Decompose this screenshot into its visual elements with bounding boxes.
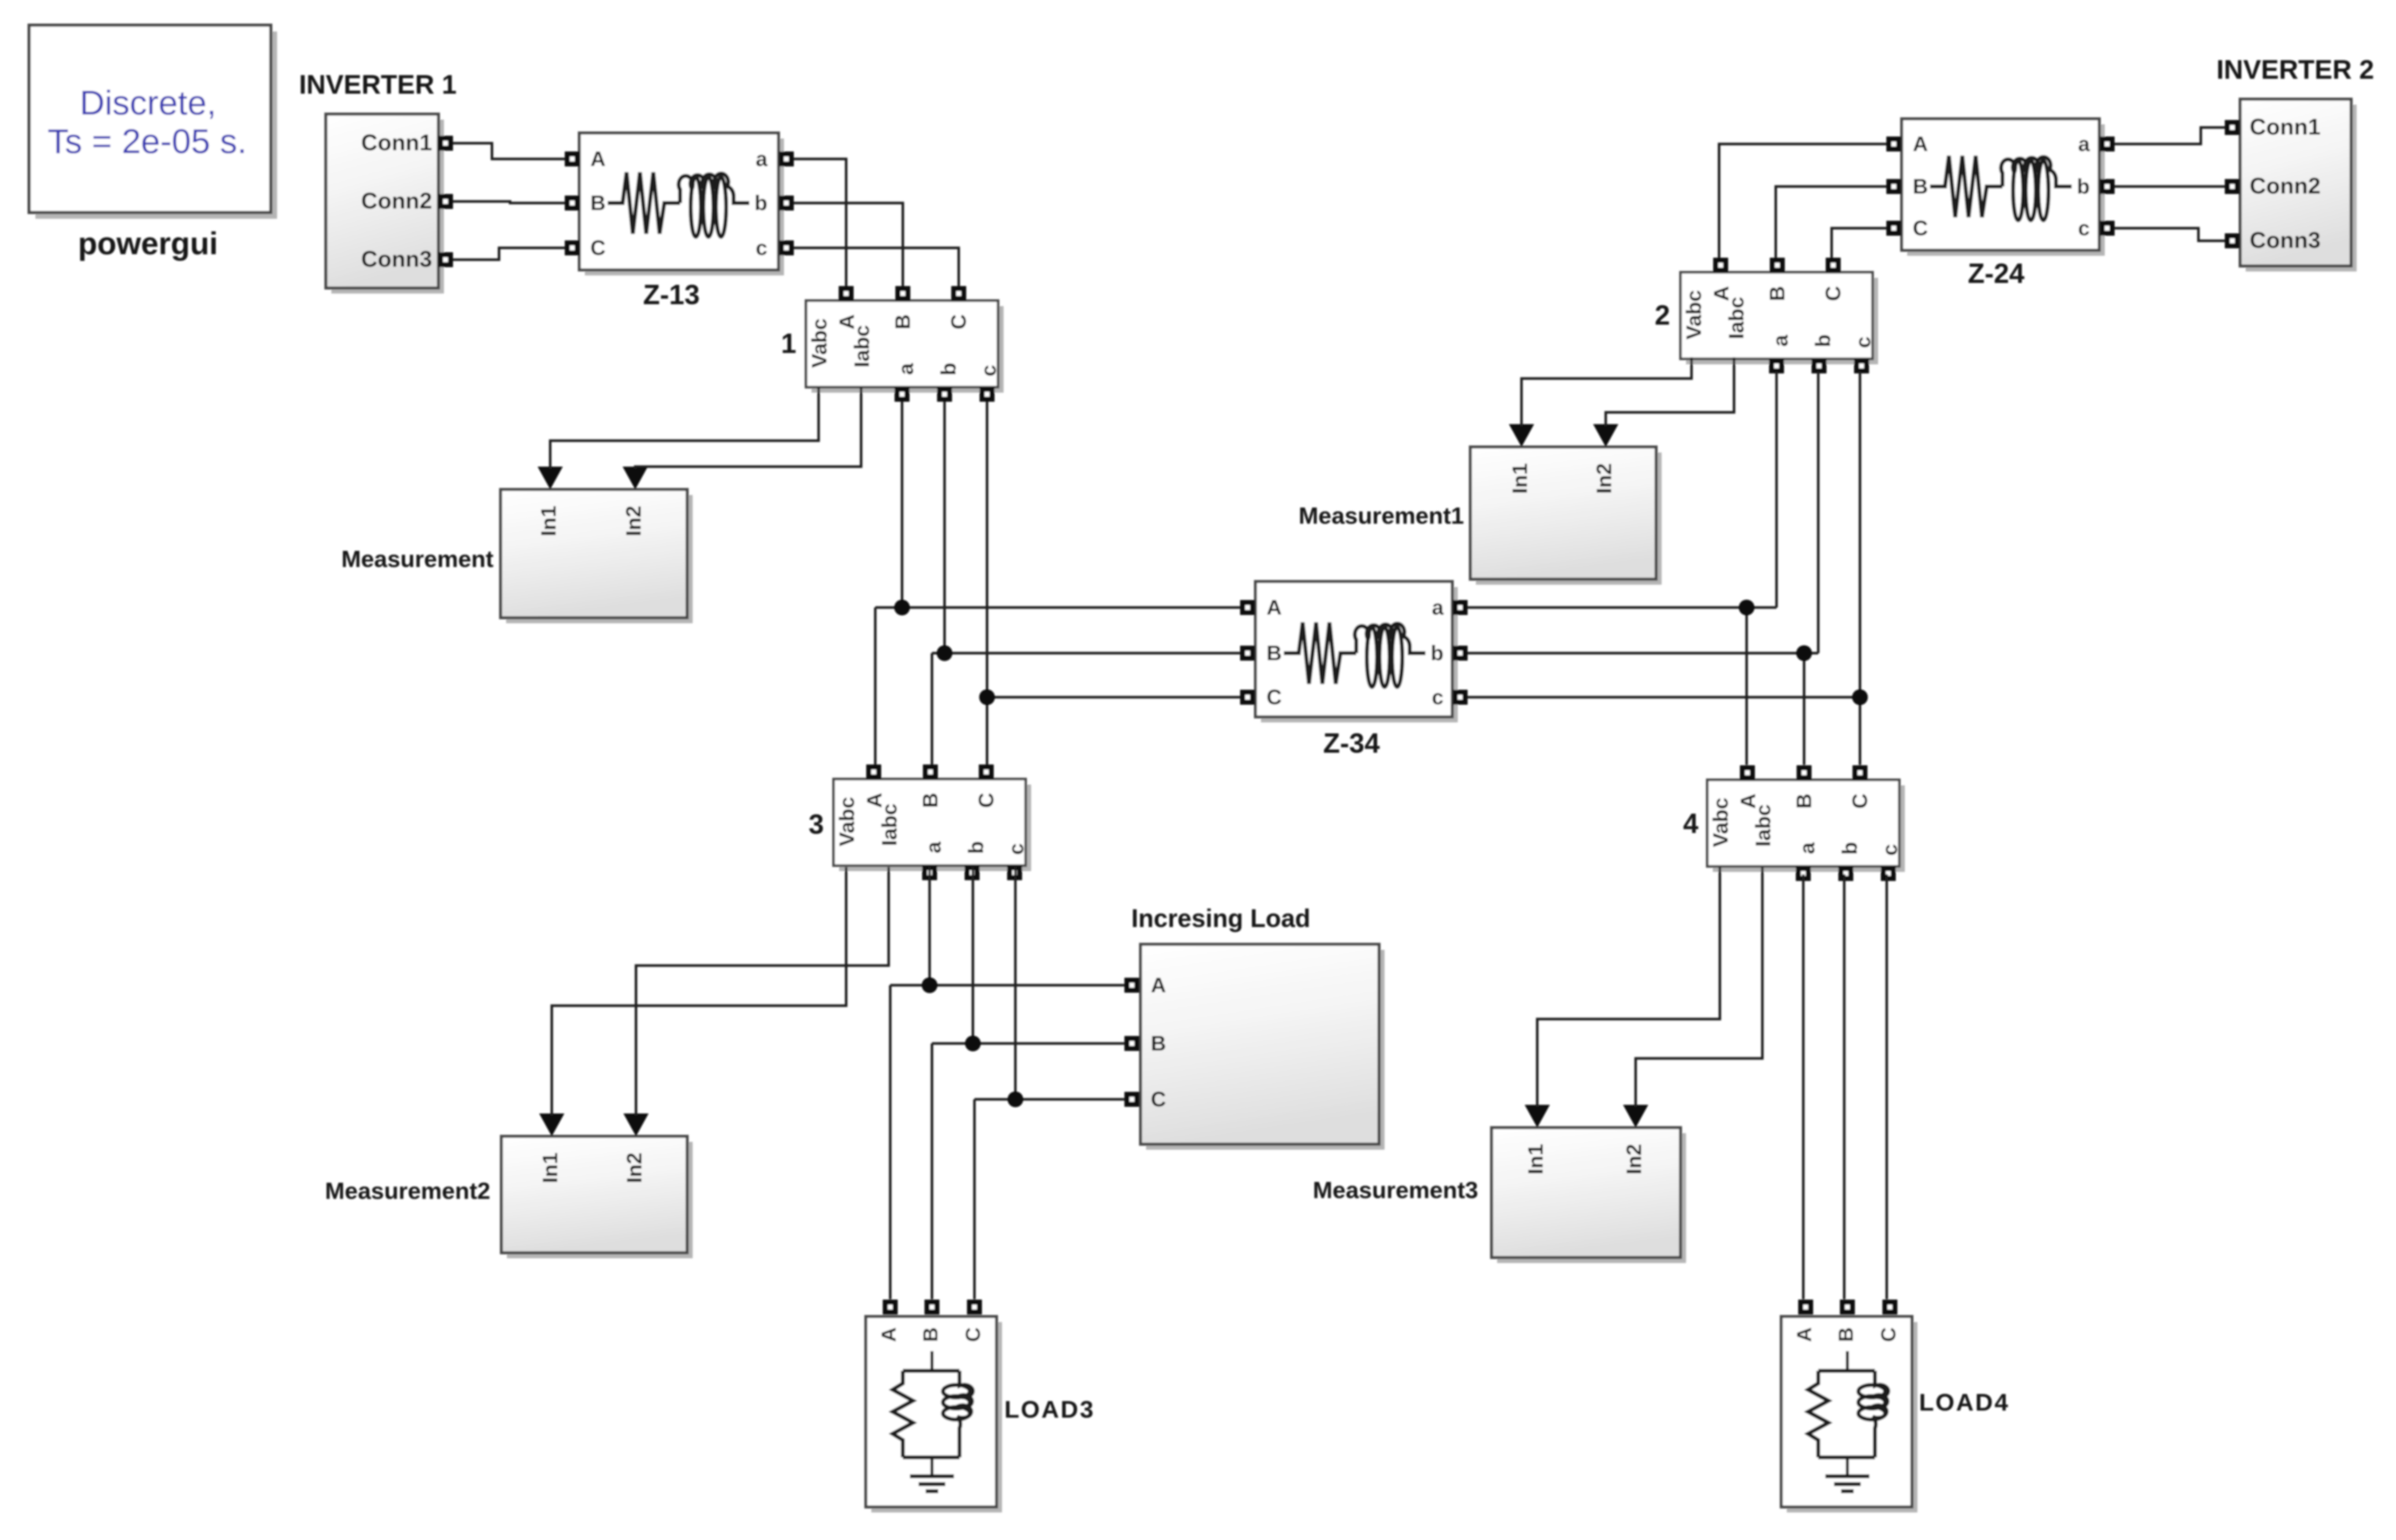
svg-text:b: b [755, 191, 768, 215]
svg-text:C: C [1821, 286, 1845, 301]
svg-text:a: a [2078, 132, 2091, 156]
svg-text:3: 3 [808, 810, 823, 840]
svg-text:B: B [1151, 1032, 1167, 1055]
svg-text:c: c [977, 364, 1000, 376]
svg-text:A: A [1151, 973, 1167, 997]
svg-text:1: 1 [781, 329, 796, 360]
svg-text:Vabc: Vabc [835, 796, 859, 846]
svg-text:Incresing Load: Incresing Load [1131, 904, 1311, 932]
svg-text:A: A [1736, 793, 1760, 809]
svg-text:In2: In2 [1592, 463, 1616, 493]
svg-text:Discrete,: Discrete, [79, 84, 216, 123]
svg-text:a: a [756, 147, 768, 171]
svg-text:powergui: powergui [78, 227, 218, 261]
svg-text:B: B [891, 314, 915, 330]
svg-text:Z-34: Z-34 [1323, 729, 1381, 759]
svg-text:B: B [1834, 1328, 1858, 1342]
svg-text:Conn1: Conn1 [361, 131, 432, 156]
svg-text:Measurement1: Measurement1 [1299, 504, 1464, 530]
svg-text:b: b [1811, 334, 1835, 348]
svg-text:a: a [1769, 334, 1792, 347]
svg-text:C: C [1266, 685, 1282, 709]
svg-text:INVERTER 2: INVERTER 2 [2217, 55, 2374, 85]
svg-text:In2: In2 [623, 1152, 646, 1183]
svg-text:c: c [1878, 844, 1902, 855]
svg-text:c: c [1851, 336, 1875, 348]
svg-text:Z-24: Z-24 [1968, 259, 2025, 290]
svg-text:C: C [1151, 1088, 1167, 1111]
svg-text:B: B [590, 191, 606, 215]
svg-text:c: c [1432, 685, 1444, 709]
svg-text:Ts = 2e-05 s.: Ts = 2e-05 s. [47, 123, 246, 161]
svg-text:Conn1: Conn1 [2250, 115, 2320, 140]
svg-text:A: A [1266, 596, 1282, 619]
svg-text:C: C [947, 314, 971, 330]
svg-text:In1: In1 [537, 505, 560, 536]
svg-text:INVERTER 1: INVERTER 1 [299, 70, 457, 100]
svg-text:b: b [1431, 641, 1444, 665]
svg-text:b: b [937, 363, 960, 376]
svg-text:A: A [835, 314, 859, 330]
svg-text:Measurement3: Measurement3 [1313, 1178, 1478, 1204]
svg-text:A: A [1710, 286, 1733, 301]
svg-text:B: B [1913, 175, 1928, 198]
svg-text:b: b [1838, 842, 1862, 855]
svg-text:A: A [877, 1327, 900, 1342]
svg-text:B: B [1266, 641, 1282, 665]
svg-text:B: B [919, 792, 942, 808]
svg-text:Measurement2: Measurement2 [325, 1179, 490, 1205]
svg-text:2: 2 [1655, 301, 1669, 331]
svg-text:In2: In2 [622, 505, 645, 536]
svg-text:a: a [1432, 596, 1444, 619]
svg-text:Iabc: Iabc [1725, 297, 1748, 339]
svg-text:B: B [1792, 793, 1816, 809]
svg-text:Conn3: Conn3 [2250, 228, 2320, 253]
svg-text:Iabc: Iabc [850, 325, 874, 367]
svg-text:A: A [590, 147, 606, 171]
svg-text:Conn3: Conn3 [361, 247, 432, 272]
svg-text:Iabc: Iabc [878, 803, 901, 846]
svg-text:a: a [922, 841, 945, 854]
svg-text:In1: In1 [1508, 463, 1532, 493]
svg-text:Conn2: Conn2 [2250, 174, 2320, 199]
svg-text:c: c [2078, 216, 2090, 240]
svg-text:A: A [1913, 132, 1928, 156]
svg-text:A: A [1792, 1327, 1816, 1342]
svg-text:Vabc: Vabc [808, 318, 831, 367]
svg-text:Conn2: Conn2 [361, 189, 432, 214]
svg-text:C: C [1913, 216, 1928, 240]
svg-text:In2: In2 [1622, 1143, 1646, 1174]
svg-text:Iabc: Iabc [1751, 804, 1775, 847]
svg-text:c: c [756, 236, 767, 260]
svg-text:4: 4 [1683, 809, 1699, 840]
svg-text:B: B [919, 1328, 942, 1342]
svg-text:LOAD3: LOAD3 [1004, 1396, 1095, 1424]
svg-text:C: C [590, 236, 606, 260]
svg-text:B: B [1766, 286, 1789, 301]
svg-text:C: C [961, 1327, 985, 1342]
svg-text:C: C [1876, 1327, 1900, 1342]
svg-text:A: A [863, 792, 886, 808]
svg-text:LOAD4: LOAD4 [1919, 1389, 2010, 1416]
svg-text:C: C [1848, 793, 1872, 809]
svg-text:Measurement: Measurement [342, 547, 494, 573]
svg-text:b: b [964, 841, 988, 855]
svg-text:Z-13: Z-13 [643, 280, 700, 311]
svg-text:a: a [894, 363, 918, 375]
svg-text:b: b [2077, 175, 2091, 198]
svg-text:a: a [1795, 842, 1819, 855]
svg-text:In1: In1 [1524, 1143, 1547, 1174]
svg-text:In1: In1 [538, 1152, 562, 1183]
svg-text:c: c [1004, 843, 1028, 855]
svg-text:C: C [974, 792, 998, 808]
svg-text:Vabc: Vabc [1709, 797, 1732, 847]
svg-text:Vabc: Vabc [1682, 290, 1706, 339]
